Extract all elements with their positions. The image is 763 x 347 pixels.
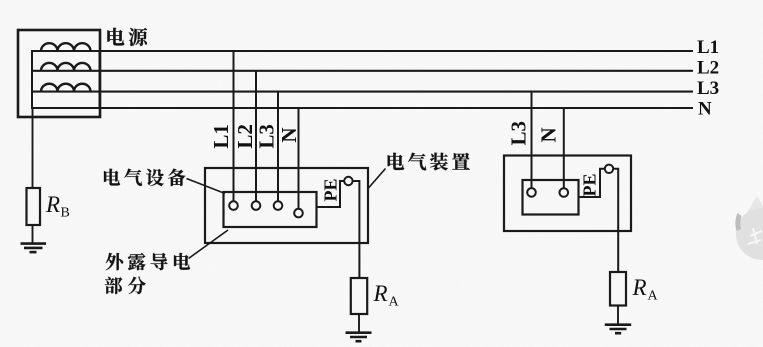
earthing conductor from transformer neutral: [32, 108, 34, 188]
PE terminal circle (equipment 2): [605, 165, 613, 173]
wire RA to ground: [358, 314, 360, 332]
svg-text:PE: PE: [580, 173, 600, 196]
terminal N: [560, 188, 569, 197]
svg-text:L2: L2: [697, 58, 719, 79]
equipment 2 terminal strip: [523, 180, 579, 215]
leader line 电气设备: [187, 179, 226, 194]
wire RA to ground (equipment 2): [617, 306, 619, 325]
svg-text:R: R: [45, 192, 60, 217]
terminal L3: [274, 201, 283, 210]
resistor RA (equipment 2): [610, 272, 626, 306]
label 外露导电: [106, 253, 124, 270]
wire L3 drop to equipment 2: [531, 92, 533, 189]
ground (transformer working earth): [21, 244, 47, 253]
terminal L3: [527, 188, 536, 197]
svg-text:L3: L3: [506, 121, 530, 146]
wire N drop to equipment 1: [298, 108, 300, 209]
wire RB to ground: [32, 225, 34, 243]
bus line L3: [33, 91, 693, 93]
PE link wire (equipment 2): [579, 169, 605, 197]
svg-text:R: R: [632, 275, 647, 300]
equipment 2 enclosure: [504, 156, 631, 232]
label 电气装置: [388, 153, 404, 170]
PE conductor down (equipment 2): [613, 169, 618, 272]
winding L1: [41, 43, 91, 51]
equipment 1 terminal strip (电气设备): [224, 192, 317, 227]
wire L3 drop to equipment 1: [277, 92, 279, 202]
terminal L2: [252, 201, 261, 210]
terminal N: [294, 209, 303, 218]
wire L1 drop to equipment 1: [233, 51, 235, 201]
svg-text:L1: L1: [209, 124, 233, 149]
wire L2 drop to equipment 1: [255, 71, 257, 202]
resistor RA (equipment 1): [351, 278, 367, 314]
svg-text:A: A: [389, 295, 400, 310]
watermark blob (decorative): [735, 196, 763, 260]
PE link wire: [317, 181, 345, 207]
PE terminal circle: [344, 177, 352, 185]
winding L3: [41, 84, 91, 92]
bus line L1: [100, 50, 694, 52]
label 部分: [105, 277, 123, 294]
svg-text:PE: PE: [321, 178, 341, 201]
PE conductor down: [353, 181, 360, 278]
leader line 外露导电部分: [189, 230, 229, 259]
label 电源 (power source): [107, 28, 124, 46]
equipment 1 enclosure (电气装置): [205, 168, 368, 243]
terminal L1: [229, 201, 238, 210]
svg-text:N: N: [698, 99, 712, 120]
svg-text:R: R: [373, 281, 388, 306]
svg-text:L3: L3: [254, 124, 278, 149]
svg-text:A: A: [648, 289, 659, 304]
ground (equipment 1 earth): [346, 333, 372, 342]
svg-text:L1: L1: [697, 37, 719, 58]
ground (equipment 2 earth): [605, 325, 631, 334]
svg-text:L3: L3: [697, 78, 719, 99]
label 电气设备: [104, 169, 120, 186]
wire N drop to equipment 2: [563, 108, 565, 188]
bus line L2: [33, 70, 693, 72]
leader line 电气装置: [369, 169, 386, 189]
transformer winding box: [32, 51, 100, 108]
resistor RB: [27, 188, 41, 225]
winding L2: [41, 63, 91, 71]
transformer outer box (power source): [18, 30, 100, 117]
bus line N: [100, 107, 694, 109]
svg-text:B: B: [61, 206, 70, 221]
svg-text:N: N: [536, 127, 560, 142]
svg-text:N: N: [277, 127, 301, 142]
